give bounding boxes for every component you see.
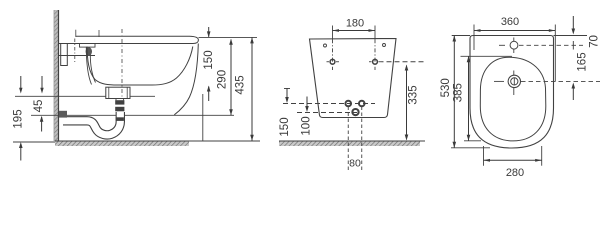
- svg-text:70: 70: [589, 35, 600, 48]
- svg-text:165: 165: [577, 52, 589, 71]
- svg-text:150: 150: [279, 117, 291, 136]
- svg-text:100: 100: [301, 116, 313, 135]
- svg-text:435: 435: [235, 75, 247, 94]
- svg-text:530: 530: [440, 78, 452, 97]
- svg-text:280: 280: [506, 167, 524, 179]
- svg-text:360: 360: [501, 16, 519, 28]
- svg-text:45: 45: [33, 100, 45, 113]
- svg-text:80: 80: [349, 158, 361, 170]
- svg-text:180: 180: [346, 18, 364, 30]
- svg-text:290: 290: [217, 70, 229, 89]
- svg-text:150: 150: [203, 50, 215, 69]
- svg-text:385: 385: [453, 83, 465, 102]
- svg-text:335: 335: [408, 85, 420, 104]
- svg-text:195: 195: [13, 109, 25, 128]
